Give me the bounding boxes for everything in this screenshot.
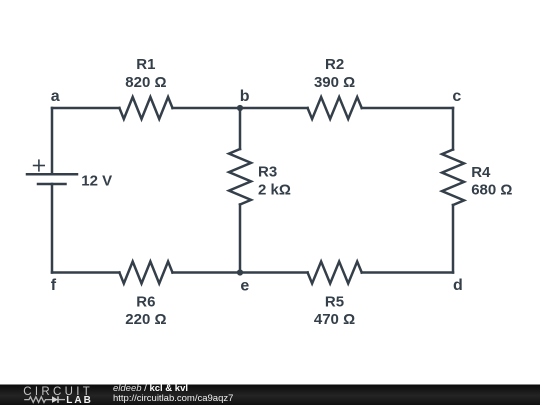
wire R3 to node e [239,205,242,273]
wire node a down to battery top [51,108,54,174]
wire R2 to node c [362,107,453,110]
svg-text:680 Ω: 680 Ω [471,181,512,198]
svg-text:e: e [240,277,249,294]
wire R1 to node b [173,107,241,110]
CircuitLab logo diode symbol [52,396,65,403]
junction dot node e [237,269,243,275]
wire node f to R6 [52,271,119,274]
svg-text:a: a [51,88,60,105]
svg-text:R5: R5 [325,293,344,310]
junction dot node b [237,105,243,111]
wire node b to R2 [240,107,308,110]
battery plus sign [33,159,45,171]
svg-text:R2: R2 [325,56,344,73]
wire R5 to node d [362,271,453,274]
svg-text:R6: R6 [136,293,155,310]
svg-text:390 Ω: 390 Ω [314,74,355,91]
wire battery bottom to node f [51,184,54,273]
wire R4 to node d [452,205,455,273]
svg-text:220 Ω: 220 Ω [125,311,166,328]
svg-text:470 Ω: 470 Ω [314,311,355,328]
wire a to R1 [52,107,119,110]
svg-text:eldeeb / kcl & kvl: eldeeb / kcl & kvl [113,383,188,394]
battery V1 short plate [38,183,66,186]
wire node b down to R3 [239,108,242,149]
resistor R3 zigzag [229,149,251,205]
CircuitLab logo resistor squiggle [24,397,52,403]
svg-text:R3: R3 [258,164,277,181]
svg-text:c: c [452,88,461,105]
resistor R1 zigzag [119,97,172,119]
svg-text:http://circuitlab.com/ca9aqz7: http://circuitlab.com/ca9aqz7 [113,393,233,404]
svg-text:R4: R4 [471,164,491,181]
wire R6 to node e [173,271,241,274]
resistor R2 zigzag [308,97,362,119]
svg-text:LAB: LAB [66,395,93,405]
svg-text:R1: R1 [136,56,155,73]
svg-text:d: d [453,277,463,294]
svg-text:2 kΩ: 2 kΩ [258,181,291,198]
svg-text:12 V: 12 V [81,173,112,190]
resistor R6 zigzag [119,262,172,284]
wire node e to R5 [240,271,308,274]
resistor R4 zigzag [442,150,464,206]
svg-text:820 Ω: 820 Ω [125,74,166,91]
battery V1 long plate [27,173,77,176]
svg-text:f: f [51,277,57,294]
resistor R5 zigzag [308,262,362,284]
svg-text:b: b [240,88,250,105]
wire node c down to R4 [452,108,455,150]
